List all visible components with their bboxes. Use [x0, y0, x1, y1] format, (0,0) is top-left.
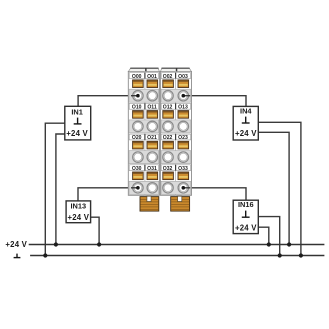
- svg-text:IN16: IN16: [238, 200, 254, 209]
- svg-text:O13: O13: [178, 105, 188, 111]
- svg-text:O33: O33: [178, 166, 188, 172]
- svg-text:IN13: IN13: [70, 202, 86, 211]
- svg-text:O20: O20: [132, 135, 142, 141]
- svg-text:O21: O21: [147, 135, 157, 141]
- svg-text:O31: O31: [147, 166, 157, 172]
- svg-text:O23: O23: [178, 135, 188, 141]
- svg-text:+24 V: +24 V: [68, 213, 90, 222]
- svg-text:O10: O10: [132, 105, 142, 111]
- svg-text:O03: O03: [178, 74, 188, 80]
- svg-text:O30: O30: [132, 166, 142, 172]
- svg-text:O12: O12: [163, 105, 173, 111]
- svg-text:+24 V: +24 V: [66, 129, 88, 138]
- svg-text:O00: O00: [132, 74, 142, 80]
- svg-text:O22: O22: [163, 135, 173, 141]
- svg-text:IN1: IN1: [71, 108, 83, 117]
- svg-text:O02: O02: [163, 74, 173, 80]
- svg-text:O32: O32: [163, 166, 173, 172]
- svg-text:IN4: IN4: [240, 107, 252, 116]
- svg-text:+24 V: +24 V: [235, 223, 257, 232]
- svg-text:+24 V: +24 V: [235, 129, 257, 138]
- svg-text:O01: O01: [147, 74, 157, 80]
- svg-text:+24 V: +24 V: [5, 240, 27, 249]
- svg-text:O11: O11: [147, 105, 157, 111]
